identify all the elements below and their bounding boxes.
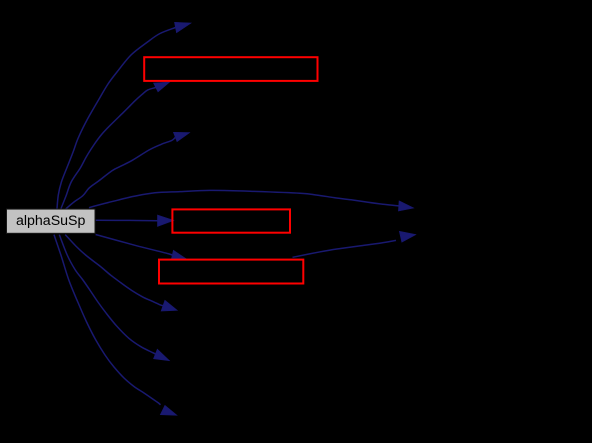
svg-text:alphaSuSp: alphaSuSp (16, 213, 86, 229)
edge 1: alphaSuSp -> hidden node (top) (57, 22, 191, 208)
edge 7: alphaSuSp -> hidden node (below box 3) (65, 235, 177, 311)
edge 8: alphaSuSp -> hidden node (lower) (59, 235, 169, 361)
edge 10: red box 3 -> hidden node (right, lower) (293, 231, 416, 257)
node alphaSuSp (current function, grey box) (7, 209, 96, 233)
node: red box 3 (truncated callee, lower) (159, 260, 303, 284)
edge 3: alphaSuSp -> hidden node (upper middle) (66, 132, 190, 209)
node: red box 1 (truncated callee, top) (144, 57, 317, 81)
edge 5: alphaSuSp -> red box 2 (96, 215, 174, 226)
edge 9: alphaSuSp -> hidden node (bottom) (54, 235, 177, 416)
edge 6: alphaSuSp -> red box 3 (96, 235, 187, 261)
node: red box 2 (truncated callee, middle) (172, 209, 290, 232)
edge 2: alphaSuSp -> red box 1 (61, 82, 170, 209)
edge 4: alphaSuSp -> hidden node (right, upper) (89, 190, 414, 211)
